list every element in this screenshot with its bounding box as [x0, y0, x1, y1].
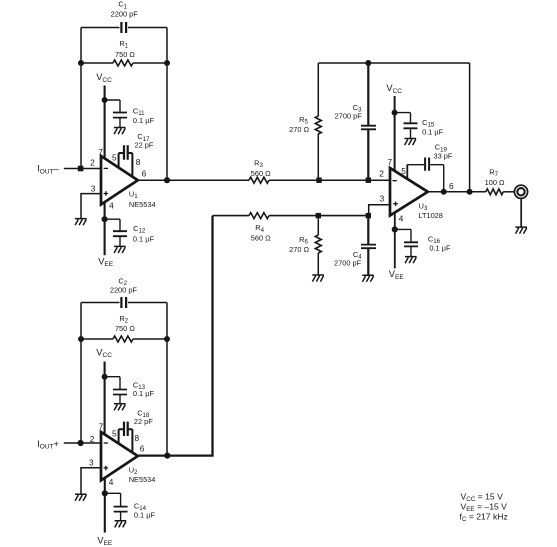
op-amp U3 LT1028	[379, 157, 454, 223]
ground (below C4)	[362, 275, 374, 282]
capacitor C3 2700 pF	[335, 63, 376, 180]
node: R4/R6 junction	[316, 213, 321, 218]
resistor R2 750 ohm	[81, 314, 167, 342]
node: output/rail junction	[467, 189, 473, 195]
capacitor C17 22 pF (U1 pins 5-8)	[119, 132, 154, 177]
wire: right feedback vertical (C1/R1 to U1 output)	[166, 28, 168, 181]
svg-text:8: 8	[134, 433, 139, 443]
svg-text:750 Ω: 750 Ω	[115, 324, 135, 333]
wire: top feedback rail	[318, 62, 469, 64]
svg-text:5: 5	[401, 166, 406, 176]
ground (below C14)	[115, 521, 127, 528]
capacitor C14 0.1 uF	[105, 493, 156, 520]
svg-text:fC = 217 kHz: fC = 217 kHz	[460, 512, 508, 524]
ground (below C11)	[114, 128, 126, 135]
svg-text:3: 3	[89, 457, 94, 467]
capacitor C4 2700 pF	[334, 216, 376, 275]
svg-text:8: 8	[136, 157, 141, 167]
svg-text:750 Ω: 750 Ω	[115, 50, 135, 59]
svg-text:2: 2	[379, 169, 384, 179]
resistor R4 560 ohm	[213, 213, 369, 243]
wire: U2 output up-link to R4 row	[138, 216, 213, 456]
power VEE (U2)	[97, 535, 113, 547]
node: R2 right junction	[164, 336, 170, 342]
resistor R6 270 ohm	[289, 216, 321, 275]
ground (below C12)	[114, 246, 126, 253]
node: R4/C4 junction	[366, 213, 371, 218]
capacitor C2 2200 pF	[81, 276, 167, 308]
svg-text:0.1 µF: 0.1 µF	[429, 244, 451, 253]
svg-text:4: 4	[109, 477, 114, 487]
node: R1 left junction	[78, 60, 84, 66]
svg-text:2: 2	[90, 157, 95, 167]
wire: stub to U3 pin 3	[369, 205, 390, 216]
ground (U1 pin 3)	[75, 219, 87, 226]
power VEE (U1)	[98, 256, 114, 268]
wire: left feedback vertical (C1/R1 to U1 inverting input)	[80, 28, 82, 169]
wire: U3 output row	[428, 191, 486, 193]
power VEE (U3)	[389, 269, 405, 281]
node: R2 left junction	[78, 336, 84, 342]
node: VCC/C13 junction	[102, 374, 108, 380]
capacitor C1 2200 pF	[81, 0, 167, 33]
ground (below C13)	[114, 404, 126, 411]
svg-text:5: 5	[112, 428, 117, 438]
resistor R1 750 ohm	[81, 39, 167, 66]
svg-text:22 pF: 22 pF	[134, 417, 153, 426]
svg-text:3: 3	[91, 184, 96, 194]
svg-text:0.1 µF: 0.1 µF	[133, 234, 155, 243]
wire: U2 pin 3 to ground	[81, 468, 101, 494]
input IOUT+	[37, 439, 101, 451]
node: pin4/C14 junction	[102, 490, 108, 496]
node: U2 inverting input junction	[78, 440, 84, 446]
svg-text:4: 4	[399, 213, 404, 223]
svg-text:560 Ω: 560 Ω	[251, 169, 271, 178]
resistor R3 560 ohm (row U1 out to U3 pin2)	[138, 159, 390, 184]
svg-text:5: 5	[112, 152, 117, 162]
resistor R7 100 ohm	[485, 168, 515, 195]
node: U2 output junction	[164, 453, 170, 459]
wire: right feedback vertical (C2/R2 to U2 output)	[166, 303, 168, 456]
ground (U2 pin 3)	[75, 494, 87, 501]
svg-text:7: 7	[387, 157, 392, 167]
resistor R5 270 ohm	[289, 63, 321, 180]
ground (below connector)	[515, 227, 527, 234]
note: supply values text	[460, 492, 508, 524]
node: VCC/C15 junction	[392, 110, 398, 116]
capacitor C13 0.1 uF	[105, 377, 155, 404]
svg-text:6: 6	[140, 444, 145, 454]
svg-text:NE5534: NE5534	[129, 200, 156, 209]
svg-text:LT1028: LT1028	[418, 211, 443, 220]
svg-text:22 pF: 22 pF	[135, 141, 154, 150]
input IOUT-	[37, 164, 101, 176]
node: pin4/C16 junction	[392, 226, 398, 232]
wire: left feedback vertical (C2/R2 to U2 inverting input)	[80, 303, 82, 444]
node: U1 inverting input junction	[78, 166, 84, 172]
svg-text:7: 7	[99, 422, 104, 432]
svg-text:4: 4	[109, 200, 114, 210]
node: rail/C3 junction	[365, 60, 371, 66]
power VCC (U2)	[96, 347, 112, 434]
node: R3/R5 junction	[316, 178, 321, 183]
svg-text:3: 3	[380, 194, 385, 204]
node: output/C19 junction	[441, 189, 447, 195]
node: R1 right junction	[164, 60, 170, 66]
svg-text:6: 6	[142, 168, 147, 178]
wire: U1 pin 4 to VEE	[104, 202, 106, 255]
svg-text:2700 pF: 2700 pF	[334, 258, 362, 267]
node: R3/C3 junction	[366, 178, 371, 183]
svg-text:560 Ω: 560 Ω	[251, 234, 271, 243]
svg-text:2700 pF: 2700 pF	[335, 112, 363, 121]
capacitor C18 22 pF (U2 pins 5-8)	[119, 408, 154, 453]
svg-text:2200 pF: 2200 pF	[111, 10, 139, 19]
svg-text:0.1 µF: 0.1 µF	[422, 127, 444, 136]
node: VCC/C11 junction	[102, 97, 108, 103]
power VCC (U1)	[96, 72, 112, 158]
svg-text:33 pF: 33 pF	[434, 152, 453, 161]
wire: U1 pin 3 to ground	[81, 194, 101, 219]
ground (below C16)	[405, 257, 417, 264]
capacitor C11 0.1 uF	[105, 100, 155, 127]
wire: U2 pin 4 to VEE	[104, 478, 106, 533]
svg-text:270 Ω: 270 Ω	[289, 245, 309, 254]
svg-text:0.1 µF: 0.1 µF	[133, 389, 155, 398]
capacitor C15 0.1 uF	[395, 113, 444, 139]
wire: right rail vertical to output	[469, 63, 471, 192]
svg-text:0.1 µF: 0.1 µF	[133, 116, 155, 125]
node: U1 output junction	[164, 177, 170, 183]
ground (below R6)	[312, 275, 324, 282]
node: pin4/C12 junction	[102, 216, 108, 222]
capacitor C12 0.1 uF	[105, 219, 155, 246]
svg-text:100 Ω: 100 Ω	[485, 178, 505, 187]
svg-text:6: 6	[449, 181, 454, 191]
svg-text:270 Ω: 270 Ω	[289, 125, 309, 134]
power VCC (U3)	[386, 83, 402, 171]
wire: U3 pin 4 to VEE	[394, 213, 396, 269]
op-amp U1 NE5534	[90, 147, 156, 210]
svg-text:2200 pF: 2200 pF	[110, 286, 138, 295]
ground (below C15)	[405, 139, 417, 146]
output connector jack	[514, 185, 527, 227]
capacitor C16 0.1 uF	[395, 229, 451, 256]
svg-text:7: 7	[98, 147, 103, 157]
capacitor C19 33 pF (U3 pin5 to output)	[407, 143, 453, 192]
svg-text:NE5534: NE5534	[129, 475, 156, 484]
op-amp U2 NE5534	[89, 422, 155, 488]
svg-text:0.1 µF: 0.1 µF	[134, 510, 156, 519]
